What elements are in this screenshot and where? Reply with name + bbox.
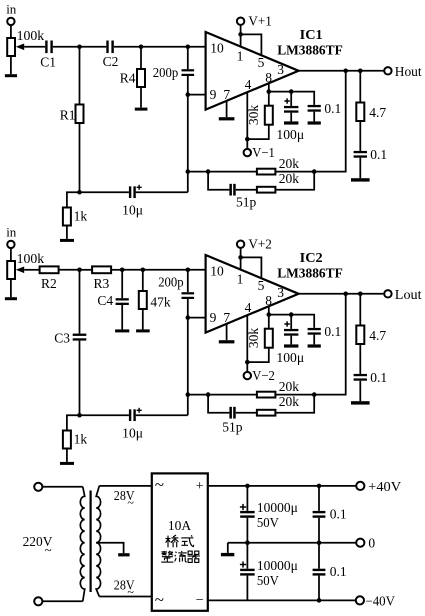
wire bbox=[80, 191, 129, 193]
wire bbox=[79, 47, 81, 105]
svg-text:R4: R4 bbox=[120, 70, 136, 85]
ground bbox=[60, 239, 74, 242]
wire bbox=[79, 123, 81, 192]
capacitor 51p bbox=[229, 184, 232, 196]
label 桥式整流器 (bridge rectifier text) bbox=[161, 535, 200, 562]
svg-text:+40V: +40V bbox=[368, 479, 401, 494]
transformer T1 secondary winding bbox=[96, 486, 100, 597]
resistor 1k bbox=[63, 431, 71, 449]
wire bbox=[275, 395, 314, 413]
svg-text:10μ: 10μ bbox=[122, 425, 143, 440]
resistor 20k (lower) bbox=[257, 410, 276, 416]
node bbox=[245, 540, 250, 545]
wire bbox=[142, 270, 144, 291]
capacitor C3 bbox=[73, 334, 87, 336]
node bbox=[267, 312, 272, 317]
svg-text:9: 9 bbox=[210, 87, 217, 102]
ground bbox=[284, 121, 298, 124]
node bbox=[186, 392, 191, 397]
svg-text:200p: 200p bbox=[158, 274, 184, 289]
wire bbox=[114, 46, 141, 48]
wire (pin 4) bbox=[246, 92, 248, 139]
svg-text:Lout: Lout bbox=[395, 287, 422, 302]
wire bbox=[53, 46, 80, 48]
svg-text:20k: 20k bbox=[279, 379, 300, 394]
ground bbox=[5, 74, 17, 77]
wire bbox=[143, 269, 188, 271]
svg-text:0: 0 bbox=[368, 536, 375, 551]
svg-text:0.1: 0.1 bbox=[370, 370, 387, 385]
svg-text:10μ: 10μ bbox=[122, 202, 143, 217]
node bbox=[317, 540, 322, 545]
wire bbox=[10, 56, 12, 74]
terminal 0 bbox=[356, 539, 364, 547]
wire bbox=[188, 269, 206, 271]
svg-text:0.1: 0.1 bbox=[330, 506, 347, 521]
capacitor 10000μ/50V (bottom) bbox=[246, 543, 248, 569]
svg-text:0.1: 0.1 bbox=[324, 101, 341, 116]
svg-text:8: 8 bbox=[265, 70, 272, 85]
wire bbox=[42, 486, 83, 488]
transformer core bbox=[89, 491, 91, 593]
svg-text:IC1: IC1 bbox=[300, 28, 323, 43]
wire bbox=[187, 299, 189, 318]
svg-text:R1: R1 bbox=[60, 107, 76, 122]
wire (secondary top) bbox=[99, 485, 152, 487]
svg-text:1: 1 bbox=[237, 49, 244, 64]
AC terminal (primary bottom) bbox=[34, 597, 42, 605]
wire bbox=[291, 92, 314, 105]
svg-text:10: 10 bbox=[210, 263, 224, 278]
svg-text:LM3886TF: LM3886TF bbox=[277, 266, 343, 281]
node B3 bbox=[141, 268, 146, 273]
svg-text:~: ~ bbox=[127, 585, 134, 599]
svg-text:20k: 20k bbox=[279, 394, 300, 409]
svg-text:V+1: V+1 bbox=[248, 14, 272, 29]
svg-text:7: 7 bbox=[223, 310, 230, 325]
svg-text:20k: 20k bbox=[279, 156, 300, 171]
capacitor 0.1 (zobel) bbox=[354, 374, 367, 376]
wire bbox=[246, 139, 248, 149]
capacitor C4 bbox=[116, 298, 129, 300]
node A2 bbox=[139, 45, 144, 50]
svg-text:200p: 200p bbox=[153, 65, 179, 80]
wire bbox=[290, 113, 292, 122]
wire (center tap) bbox=[96, 543, 123, 554]
svg-text:4: 4 bbox=[245, 77, 252, 92]
resistor 4.7 bbox=[356, 103, 364, 122]
svg-text:+: + bbox=[196, 479, 204, 494]
potentiometer 100k VR2 bbox=[7, 261, 15, 279]
ground (center tap) bbox=[118, 553, 129, 556]
svg-text:5: 5 bbox=[258, 55, 265, 70]
ground bbox=[308, 344, 321, 347]
wire (output) bbox=[299, 293, 385, 295]
svg-text:51p: 51p bbox=[236, 194, 257, 209]
capacitor 51p bbox=[229, 407, 232, 419]
wire bbox=[187, 95, 189, 172]
wire bbox=[187, 76, 189, 95]
wire bbox=[66, 449, 68, 462]
input terminal J2 bbox=[7, 241, 14, 248]
node bbox=[77, 413, 82, 418]
svg-text:9: 9 bbox=[210, 310, 217, 325]
wire (pin 4) bbox=[246, 315, 248, 362]
node (pin9 junction) bbox=[186, 315, 191, 320]
node bbox=[317, 598, 322, 603]
svg-text:V−2: V−2 bbox=[252, 368, 275, 383]
wire (+ rail) bbox=[208, 485, 357, 487]
capacitor 200p (IC1) bbox=[187, 47, 189, 69]
bridge rectifier U3 (10A) bbox=[152, 473, 208, 610]
resistor 20k (lower) bbox=[257, 187, 276, 193]
capacitor C1 bbox=[45, 41, 47, 54]
capacitor 200p (IC2) bbox=[187, 270, 189, 292]
node bbox=[186, 169, 191, 174]
wire (secondary bottom) bbox=[99, 596, 152, 598]
capacitor 100μ bbox=[290, 92, 292, 106]
wire bbox=[140, 87, 142, 108]
node A1 bbox=[77, 45, 82, 50]
node bbox=[267, 89, 272, 94]
svg-text:4: 4 bbox=[245, 300, 252, 315]
svg-text:4.7: 4.7 bbox=[369, 105, 386, 120]
svg-text:50V: 50V bbox=[257, 515, 279, 530]
ground bbox=[60, 462, 74, 465]
node bbox=[206, 169, 211, 174]
input terminal J1 bbox=[7, 18, 14, 25]
capacitor 0.1 (top) bbox=[318, 486, 320, 511]
wire bbox=[188, 94, 206, 96]
svg-text:in: in bbox=[6, 225, 17, 240]
svg-text:C2: C2 bbox=[103, 54, 119, 69]
svg-text:47k: 47k bbox=[150, 295, 171, 310]
ground (0V rail) bbox=[227, 543, 229, 553]
svg-text:~: ~ bbox=[155, 590, 164, 609]
wire bbox=[247, 348, 268, 362]
capacitor 0.1 (zobel) bbox=[354, 151, 367, 153]
wire bbox=[208, 394, 257, 396]
wire (pin1/pin5 supply) bbox=[240, 248, 242, 258]
wire bbox=[208, 395, 229, 413]
wire bbox=[67, 192, 80, 207]
ground (pin 7) bbox=[219, 340, 235, 343]
wire bbox=[59, 269, 80, 271]
wire bbox=[67, 415, 80, 430]
wire bbox=[10, 25, 12, 38]
potentiometer 100k VR1 bbox=[7, 38, 15, 56]
wire bbox=[111, 269, 122, 271]
wire bbox=[359, 158, 361, 179]
svg-text:C4: C4 bbox=[97, 293, 113, 308]
svg-text:~: ~ bbox=[127, 495, 134, 509]
svg-text:100μ: 100μ bbox=[276, 127, 304, 142]
ground bbox=[5, 297, 17, 300]
svg-text:V−1: V−1 bbox=[252, 145, 275, 160]
wire bbox=[313, 335, 315, 345]
terminal V+1 bbox=[237, 18, 244, 25]
ground bbox=[351, 178, 370, 181]
ground bbox=[115, 329, 129, 332]
wire bbox=[10, 248, 12, 261]
svg-text:in: in bbox=[6, 2, 17, 17]
ground bbox=[308, 121, 321, 124]
terminal V−2 bbox=[244, 372, 251, 379]
svg-text:100k: 100k bbox=[17, 28, 45, 43]
wire bbox=[79, 341, 81, 416]
terminal −40V bbox=[356, 596, 364, 604]
svg-text:C1: C1 bbox=[40, 55, 56, 70]
node bbox=[343, 292, 348, 297]
svg-text:100μ: 100μ bbox=[276, 350, 304, 365]
wire bbox=[359, 381, 361, 402]
wire bbox=[42, 600, 83, 602]
resistor 30k bbox=[268, 92, 270, 106]
capacitor 10μ bbox=[129, 186, 131, 198]
node bbox=[312, 392, 317, 397]
wire bbox=[80, 414, 129, 416]
node bbox=[206, 392, 211, 397]
node bbox=[77, 190, 82, 195]
wire bbox=[122, 269, 143, 271]
op-amp IC1 LM3886TF bbox=[206, 32, 299, 110]
wire (pin 8) bbox=[268, 306, 270, 314]
svg-text:100k: 100k bbox=[17, 251, 45, 266]
AC terminal (primary top) bbox=[34, 483, 42, 491]
ground bbox=[351, 401, 370, 404]
op-amp IC2 LM3886TF bbox=[206, 255, 299, 333]
svg-text:−: − bbox=[196, 593, 204, 608]
terminal Lout bbox=[384, 290, 391, 297]
wire bbox=[226, 101, 228, 117]
wire bbox=[79, 270, 81, 334]
wire bbox=[187, 395, 189, 416]
resistor R4 bbox=[137, 69, 145, 87]
wire bbox=[140, 47, 142, 69]
svg-text:10A: 10A bbox=[168, 518, 192, 533]
svg-text:1: 1 bbox=[237, 272, 244, 287]
node (pin10 junction) bbox=[186, 268, 191, 273]
wire (pin1/pin5 supply) bbox=[240, 25, 242, 35]
capacitor 10μ bbox=[129, 409, 131, 421]
wire bbox=[246, 362, 248, 372]
svg-text:10000μ: 10000μ bbox=[257, 500, 298, 515]
node bbox=[317, 484, 322, 489]
svg-text:1k: 1k bbox=[74, 431, 88, 446]
resistor 4.7 bbox=[356, 326, 364, 345]
transformer T1 primary winding bbox=[80, 487, 84, 602]
node bbox=[312, 169, 317, 174]
ground (pin 7) bbox=[219, 117, 235, 120]
wire (output) bbox=[299, 70, 385, 72]
wire bbox=[359, 71, 361, 103]
wire bbox=[10, 279, 12, 297]
wire bbox=[24, 46, 45, 48]
capacitor C2 bbox=[106, 41, 108, 54]
resistor R3 bbox=[92, 266, 111, 273]
wire (− rail) bbox=[208, 599, 356, 601]
wire bbox=[208, 172, 229, 190]
node B2 bbox=[120, 268, 125, 273]
node (pin10 junction) bbox=[186, 45, 191, 50]
wire (0V rail) bbox=[228, 542, 357, 544]
wire bbox=[359, 294, 361, 326]
svg-text:7: 7 bbox=[223, 87, 230, 102]
svg-text:10000μ: 10000μ bbox=[257, 558, 298, 573]
svg-text:IC2: IC2 bbox=[300, 251, 323, 266]
node bbox=[238, 255, 243, 260]
wire bbox=[291, 315, 314, 328]
wire (feedback) bbox=[314, 71, 346, 172]
svg-text:Hout: Hout bbox=[395, 64, 422, 79]
svg-text:−40V: −40V bbox=[365, 593, 395, 608]
ground bbox=[135, 108, 148, 111]
node bbox=[358, 69, 363, 74]
wire bbox=[141, 46, 188, 48]
wire bbox=[188, 171, 208, 173]
wire bbox=[236, 189, 257, 191]
svg-text:V+2: V+2 bbox=[248, 237, 272, 252]
svg-text:51p: 51p bbox=[222, 420, 243, 435]
svg-text:~: ~ bbox=[45, 542, 52, 557]
svg-text:4.7: 4.7 bbox=[369, 328, 386, 343]
wire (pin 8) bbox=[268, 83, 270, 91]
svg-text:20k: 20k bbox=[279, 171, 300, 186]
wire bbox=[80, 46, 107, 48]
node bbox=[289, 89, 294, 94]
wire bbox=[188, 317, 206, 319]
wire bbox=[275, 394, 314, 396]
svg-text:5: 5 bbox=[258, 278, 265, 293]
svg-text:10: 10 bbox=[210, 40, 224, 55]
node bbox=[245, 360, 250, 365]
svg-text:R3: R3 bbox=[94, 276, 110, 291]
wire bbox=[359, 344, 361, 374]
svg-text:3: 3 bbox=[277, 285, 284, 300]
resistor R2 bbox=[40, 266, 59, 273]
capacitor 100μ bbox=[290, 315, 292, 329]
capacitor 0.1 (bottom) bbox=[318, 543, 320, 569]
terminal V+2 bbox=[237, 241, 244, 248]
wire bbox=[121, 270, 123, 298]
wire bbox=[226, 324, 228, 340]
wire bbox=[275, 172, 314, 190]
resistor R1 bbox=[76, 105, 84, 124]
svg-text:30k: 30k bbox=[246, 328, 261, 349]
wire (feedback) bbox=[314, 294, 346, 395]
svg-text:C3: C3 bbox=[54, 331, 70, 346]
wire bbox=[313, 112, 315, 122]
capacitor 0.1 (bypass) bbox=[308, 105, 321, 107]
svg-text:3: 3 bbox=[277, 62, 284, 77]
wire bbox=[80, 269, 93, 271]
wire bbox=[269, 91, 291, 93]
wire bbox=[121, 305, 123, 329]
resistor 30k bbox=[268, 315, 270, 329]
node bbox=[245, 484, 250, 489]
svg-text:0.1: 0.1 bbox=[370, 147, 387, 162]
node (pin9 junction) bbox=[186, 92, 191, 97]
ground bbox=[136, 329, 150, 332]
node bbox=[343, 69, 348, 74]
svg-text:50V: 50V bbox=[257, 573, 279, 588]
wire bbox=[269, 314, 291, 316]
svg-text:~: ~ bbox=[155, 475, 164, 494]
wire bbox=[208, 171, 257, 173]
svg-text:30k: 30k bbox=[246, 105, 261, 126]
wire bbox=[24, 269, 39, 271]
wire bbox=[187, 172, 189, 193]
svg-text:0.1: 0.1 bbox=[324, 324, 341, 339]
svg-text:R2: R2 bbox=[41, 276, 57, 291]
node B1 bbox=[77, 268, 82, 273]
resistor 47k bbox=[139, 291, 147, 309]
resistor 20k (upper) bbox=[257, 392, 276, 398]
wire bbox=[66, 226, 68, 239]
wire bbox=[188, 46, 206, 48]
wire bbox=[187, 318, 189, 395]
wire bbox=[188, 394, 208, 396]
terminal V−1 bbox=[244, 149, 251, 156]
resistor 20k (upper) bbox=[257, 169, 276, 175]
node bbox=[245, 137, 250, 142]
terminal Hout bbox=[384, 67, 391, 74]
resistor 1k bbox=[63, 208, 71, 226]
node bbox=[289, 312, 294, 317]
wire bbox=[275, 171, 314, 173]
wire bbox=[247, 125, 268, 139]
node bbox=[238, 32, 243, 37]
node bbox=[358, 292, 363, 297]
wire bbox=[290, 336, 292, 345]
ground bbox=[284, 344, 298, 347]
svg-text:LM3886TF: LM3886TF bbox=[277, 43, 343, 58]
svg-text:8: 8 bbox=[265, 293, 272, 308]
wire bbox=[142, 309, 144, 329]
capacitor 10000μ/50V (top) bbox=[246, 486, 248, 511]
svg-text:0.1: 0.1 bbox=[330, 564, 347, 579]
terminal +40V bbox=[356, 482, 364, 490]
wire bbox=[359, 121, 361, 151]
capacitor 0.1 (bypass) bbox=[308, 328, 321, 330]
svg-text:1k: 1k bbox=[74, 208, 88, 223]
wire bbox=[236, 412, 257, 414]
